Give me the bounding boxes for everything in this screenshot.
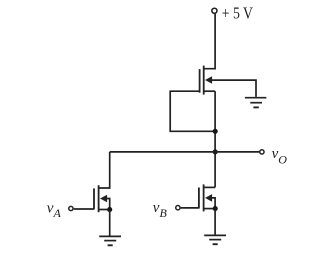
svg-text:+ 5 V: + 5 V [222,3,253,22]
transistor Q2 (input vB) [199,184,215,211]
wire Q3 body to ground [211,80,257,97]
terminal vA [69,206,73,210]
wire Q3 source down through nodes to Q2 drain [214,91,216,187]
ground (Q2 source) [204,235,226,244]
node: Q2 source-body junction [213,206,218,211]
wire Q1 source to ground [109,210,111,236]
wire Q3 gate feedback to source node [170,91,213,131]
wire output node to Q1 drain [99,152,110,188]
transistor Q1 (input vA) [94,185,110,212]
node: Q1 source-body junction [107,207,112,212]
power terminal +5 V [212,8,217,13]
svg-text:vB: vB [153,200,168,220]
wire Q2 source to ground [214,209,216,235]
wire vA to Q1 gate [74,208,94,210]
wire VDD to Q3 drain [204,14,215,69]
node: gate-source junction [213,129,218,134]
wire output line [110,151,260,153]
ground (Q3 body) [245,98,267,108]
terminal vB [176,206,180,210]
ground (Q1 source) [99,236,121,245]
wire vB to Q2 gate [181,207,199,209]
node: output junction [213,149,218,154]
transistor Q3 (NMOS load, gate tied to source) [200,66,216,95]
svg-text:vO: vO [272,146,288,166]
svg-text:vA: vA [47,200,62,220]
terminal vO [260,150,264,154]
